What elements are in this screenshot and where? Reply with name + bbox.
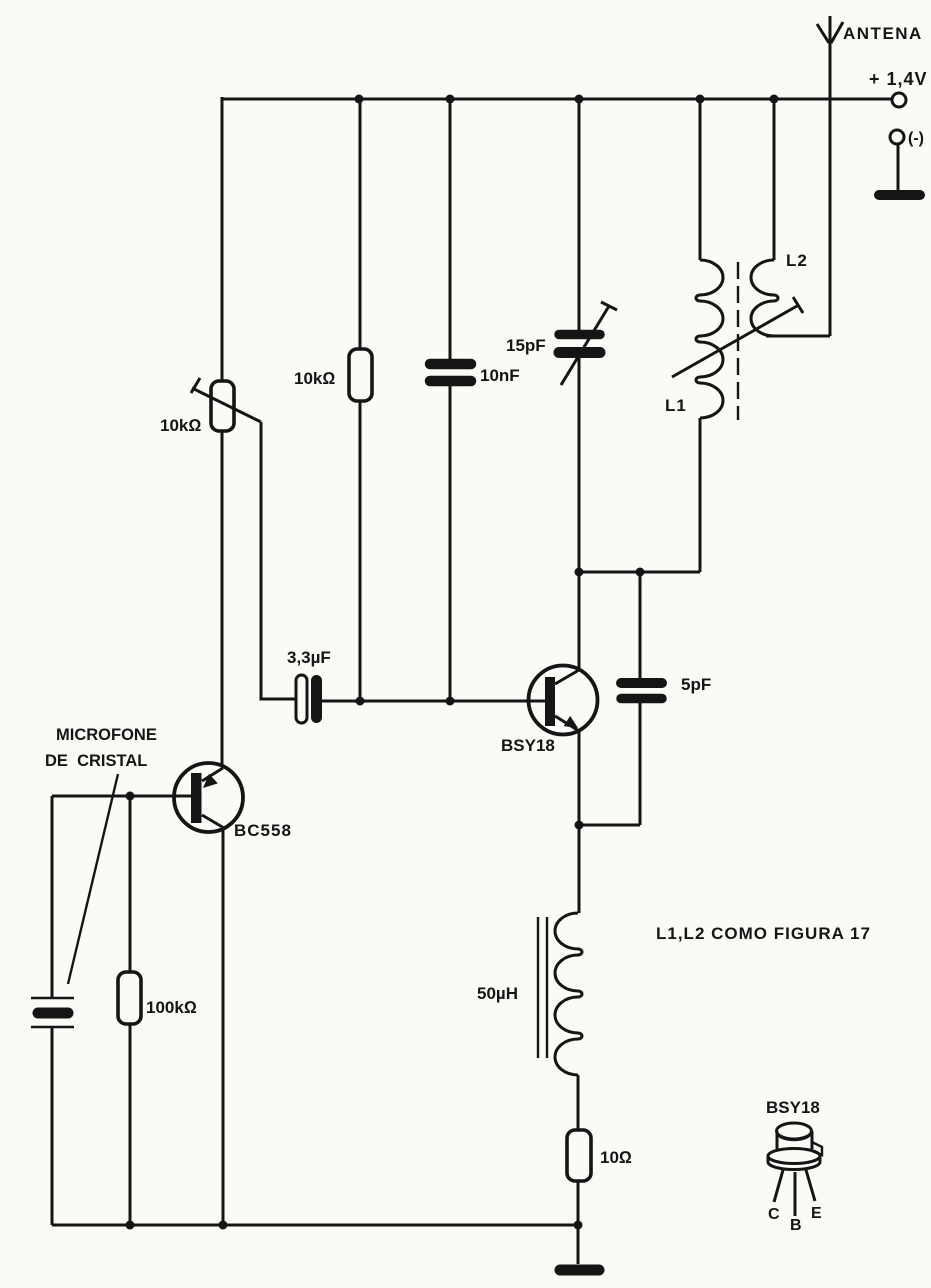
node rail-10k — [355, 95, 364, 104]
node rail-15pF — [575, 95, 584, 104]
svg-text:10kΩ: 10kΩ — [160, 416, 201, 435]
svg-text:100kΩ: 100kΩ — [146, 998, 197, 1017]
wire left rail mid — [221, 431, 224, 767]
antenna — [817, 16, 843, 336]
inductor 50uH — [538, 913, 582, 1075]
node rail-10nF — [446, 95, 455, 104]
ground symbol — [560, 1225, 599, 1270]
ground under (-) terminal — [879, 144, 920, 195]
potentiometer 10k body — [211, 381, 234, 431]
transformer core dashed line — [737, 262, 739, 420]
capacitor 15pF trimmer — [559, 99, 617, 572]
svg-text:B: B — [790, 1217, 802, 1234]
potentiometer 10k wiper arrow — [191, 378, 261, 422]
svg-text:(-): (-) — [908, 130, 924, 147]
wire BC558 collector down — [222, 827, 225, 1225]
svg-text:C: C — [768, 1206, 780, 1223]
transistor BSY18 package drawing — [768, 1123, 822, 1216]
node base-100k — [126, 792, 135, 801]
resistor 10k body — [349, 99, 372, 701]
node rail-ground — [574, 1221, 583, 1230]
wire 10ohm to ground rail — [577, 1181, 580, 1225]
svg-text:3,3µF: 3,3µF — [287, 648, 331, 667]
svg-text:10Ω: 10Ω — [600, 1148, 632, 1167]
resistor 100k — [118, 796, 141, 1225]
wire BSY18 collector — [578, 572, 581, 670]
node rail-BC558 — [219, 1221, 228, 1230]
capacitor 3,3uF electrolytic — [296, 675, 545, 723]
node collector — [575, 568, 584, 577]
svg-text:15pF: 15pF — [506, 336, 546, 355]
node 5pF top — [636, 568, 645, 577]
svg-text:BC558: BC558 — [234, 821, 292, 840]
svg-text:L1: L1 — [665, 396, 687, 415]
svg-text:+ 1,4V: + 1,4V — [869, 69, 928, 89]
label MICROFONE DE CRISTAL — [45, 726, 157, 770]
terminal +1,4V — [892, 93, 906, 107]
wire base line — [52, 795, 191, 798]
wire emitter chain to 10ohm — [577, 1075, 580, 1130]
wire pot wiper to 3,3uF — [261, 422, 296, 699]
node emitter-5pF — [575, 821, 584, 830]
terminal (-) — [890, 130, 904, 144]
inductor L1 — [696, 99, 723, 572]
node rail-L2 — [770, 95, 779, 104]
svg-text:50µH: 50µH — [477, 984, 518, 1003]
transistor Q1 BC558 — [174, 763, 243, 832]
resistor 10ohm — [567, 1130, 591, 1181]
svg-text:ANTENA: ANTENA — [843, 24, 923, 43]
node rail-100k — [126, 1221, 135, 1230]
node 10nF-base — [446, 697, 455, 706]
svg-text:5pF: 5pF — [681, 675, 711, 694]
svg-text:10nF: 10nF — [480, 366, 520, 385]
svg-text:L1,L2 COMO FIGURA 17: L1,L2 COMO FIGURA 17 — [656, 924, 871, 943]
wire left rail upper — [221, 97, 224, 381]
svg-text:MICROFONE: MICROFONE — [56, 726, 157, 744]
microphone crystal element — [31, 796, 74, 1225]
capacitor 10nF — [430, 99, 471, 701]
svg-text:DE CRISTAL: DE CRISTAL — [45, 752, 147, 770]
svg-text:L2: L2 — [786, 251, 808, 270]
inductor L2 — [751, 99, 830, 336]
transistor Q2 BSY18 — [529, 666, 598, 735]
svg-text:BSY18: BSY18 — [766, 1098, 820, 1117]
wire top supply rail — [222, 98, 891, 101]
svg-text:10kΩ: 10kΩ — [294, 369, 335, 388]
svg-text:E: E — [811, 1205, 822, 1222]
pointer line to microphone — [68, 774, 118, 984]
wire bottom ground rail — [52, 1224, 579, 1227]
svg-text:BSY18: BSY18 — [501, 736, 555, 755]
node 10k-base — [356, 697, 365, 706]
wire BSY18 emitter — [578, 731, 581, 913]
tuning arrow through L1 L2 — [672, 297, 803, 377]
node rail-L1 — [696, 95, 705, 104]
capacitor 5pF — [579, 572, 662, 825]
wire collector node line — [579, 571, 700, 574]
